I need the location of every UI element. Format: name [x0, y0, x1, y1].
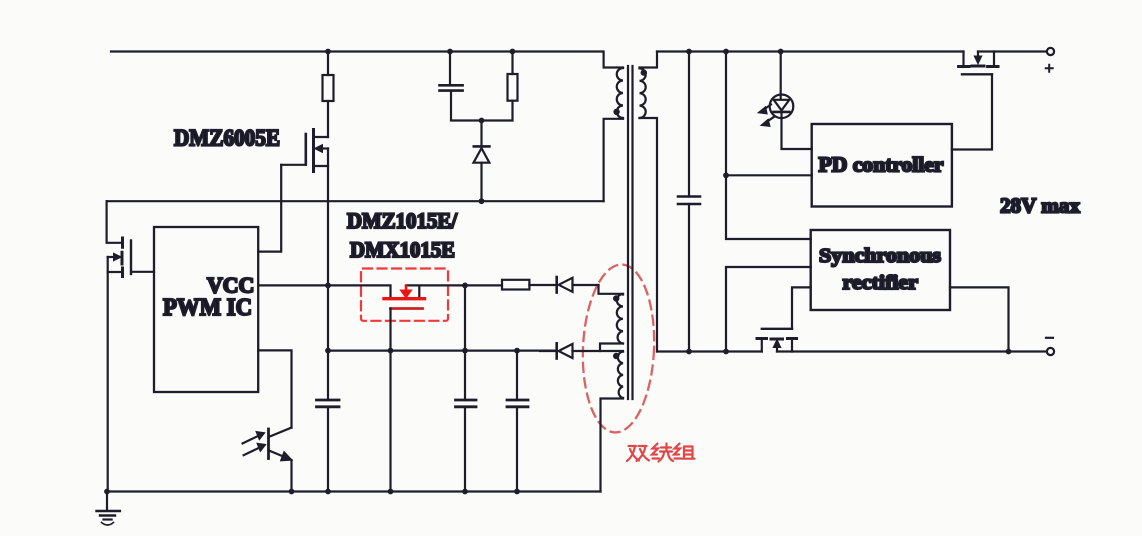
label 28V max — [1000, 194, 1081, 218]
capacitor C5 clamp — [440, 52, 482, 121]
transistor Q1 DMZ6005E — [281, 130, 328, 286]
PD controller U4 box — [812, 124, 952, 207]
wire red FET gate down to rail — [389, 309, 391, 492]
polarity dot aux upper — [613, 295, 619, 301]
junction dot clamp node — [479, 118, 485, 124]
LED D4 — [758, 52, 812, 150]
wire PD controller to Q3 gate — [952, 74, 992, 149]
wire ground rail — [107, 490, 601, 492]
junction dots negative rail — [686, 172, 1011, 354]
wire PWM lower pin to optocoupler — [258, 350, 291, 427]
wire center tap — [600, 344, 623, 352]
junction dots top rail — [325, 49, 783, 55]
resistor R1 — [323, 52, 334, 138]
svg-text:DMZ6005E: DMZ6005E — [174, 126, 280, 151]
wire Q2 source down to ground rail — [107, 257, 109, 492]
transformer T1 primary winding — [604, 68, 623, 201]
svg-text:DMX1015E: DMX1015E — [350, 237, 455, 262]
wire D1 to aux winding — [599, 285, 624, 295]
wire lower aux line — [328, 350, 557, 352]
svg-text:PD controller: PD controller — [819, 153, 944, 177]
wire +V rail branch to PD controller — [726, 52, 812, 240]
PWM IC U2 box — [154, 227, 258, 392]
resistor R2 clamp — [482, 52, 518, 121]
svg-text:PWM IC: PWM IC — [163, 294, 252, 321]
wire VCC line — [258, 285, 502, 298]
junction dots aux line — [325, 348, 520, 354]
transistor Q3 output switch — [959, 52, 1047, 75]
label VCC — [207, 274, 254, 298]
wire drain bus — [107, 200, 604, 202]
red dashed box DMZ1015E — [361, 269, 448, 321]
Synchronous rectifier U5 box — [811, 230, 950, 310]
label dual winding (red CJK) — [627, 444, 695, 462]
wire top rail primary side — [111, 52, 623, 68]
label DMZ6005E — [174, 126, 280, 151]
svg-text:rectifier: rectifier — [843, 272, 919, 294]
diode D2 — [540, 343, 600, 358]
wire gate of Q1 down to PWM IC pin — [258, 165, 281, 252]
label DMZ1015E — [347, 208, 458, 262]
diode D3 clamp — [474, 121, 490, 202]
label Synchronous rectifier — [819, 245, 941, 294]
output terminal plus — [1046, 48, 1054, 72]
transistor Q2 startup — [108, 238, 154, 277]
wire negative rail — [657, 350, 1047, 352]
aux winding upper — [617, 294, 623, 344]
polarity dot aux lower — [613, 353, 619, 359]
wire sync rectifier right to negative rail — [950, 287, 1009, 351]
capacitor C1 — [317, 285, 340, 491]
resistor R3 — [502, 280, 529, 290]
output terminal minus — [1046, 338, 1054, 355]
svg-text:Synchronous: Synchronous — [819, 245, 941, 267]
label PWM IC — [163, 294, 252, 321]
optocoupler U3 phototransistor — [243, 428, 293, 492]
wire left vertical to Q2 drain — [107, 201, 121, 243]
svg-text:DMZ1015E/: DMZ1015E/ — [347, 208, 458, 233]
ground symbol — [97, 492, 120, 526]
junction dots VCC line — [325, 283, 468, 289]
svg-text:28V max: 28V max — [1000, 194, 1081, 218]
label PD controller — [819, 153, 944, 177]
polarity dot primary — [613, 109, 619, 115]
red dashed ellipse dual winding — [579, 263, 657, 434]
capacitor C3 — [507, 351, 528, 492]
diode D1 — [529, 277, 598, 293]
transistor Q4 sync FET — [757, 287, 811, 351]
aux winding lower — [618, 352, 623, 399]
wire negative branch to sync rectifier — [726, 267, 811, 352]
transistor Q5 red DMZ1015E — [384, 286, 425, 309]
wire aux winding bottom to ground rail — [601, 398, 624, 492]
capacitor C2 — [456, 285, 477, 491]
junction dots ground rail — [104, 489, 520, 495]
polarity dot secondary — [641, 69, 647, 75]
transformer secondary winding — [640, 52, 658, 352]
wire top rail secondary side — [657, 50, 964, 52]
capacitor C4 output — [678, 52, 700, 352]
transformer core — [628, 66, 633, 399]
junction dot drain bus — [479, 198, 485, 204]
